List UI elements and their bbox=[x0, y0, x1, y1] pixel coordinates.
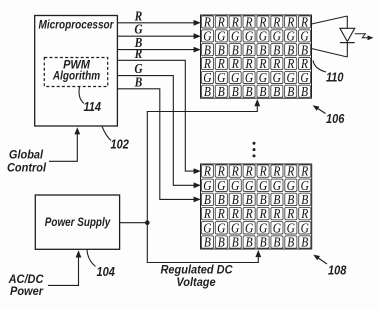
svg-text:AC/DC: AC/DC bbox=[8, 273, 44, 286]
svg-text:Regulated DC: Regulated DC bbox=[160, 264, 233, 277]
svg-text:R: R bbox=[259, 206, 267, 221]
svg-text:114: 114 bbox=[84, 99, 102, 114]
svg-text:R: R bbox=[272, 206, 280, 221]
svg-text:G: G bbox=[259, 220, 267, 235]
svg-text:R: R bbox=[203, 164, 211, 179]
power supply box 104 bbox=[35, 195, 119, 249]
leader 104 bbox=[87, 250, 96, 267]
svg-text:B: B bbox=[232, 84, 239, 99]
svg-text:B: B bbox=[204, 235, 211, 250]
leader 114 bbox=[79, 87, 84, 104]
svg-text:R: R bbox=[245, 206, 253, 221]
svg-text:G: G bbox=[245, 178, 253, 193]
svg-text:B: B bbox=[301, 192, 308, 207]
svg-text:B: B bbox=[246, 192, 253, 207]
svg-text:108: 108 bbox=[328, 263, 347, 278]
leader 106 bbox=[316, 107, 326, 114]
svg-text:R: R bbox=[245, 164, 253, 179]
svg-text:104: 104 bbox=[97, 264, 116, 279]
wire B2 bbox=[117, 89, 199, 200]
ellipsis between arrays bbox=[253, 142, 256, 145]
svg-text:B: B bbox=[245, 84, 252, 99]
wire regulated DC to bottom array bbox=[147, 223, 258, 263]
svg-text:G: G bbox=[203, 220, 211, 235]
svg-text:B: B bbox=[232, 192, 239, 207]
svg-text:R: R bbox=[203, 206, 211, 221]
svg-text:G: G bbox=[273, 220, 281, 235]
svg-text:G: G bbox=[245, 220, 253, 235]
svg-text:B: B bbox=[273, 84, 280, 99]
svg-text:B: B bbox=[218, 235, 225, 250]
wire R2 bbox=[117, 60, 199, 171]
wire B1 bbox=[117, 49, 199, 51]
svg-text:R: R bbox=[272, 164, 280, 179]
svg-text:B: B bbox=[259, 84, 266, 99]
svg-text:G: G bbox=[217, 178, 225, 193]
svg-text:G: G bbox=[301, 220, 309, 235]
svg-text:102: 102 bbox=[111, 137, 130, 152]
svg-text:Control: Control bbox=[7, 162, 47, 175]
wire AC/DC power bbox=[48, 253, 79, 286]
svg-text:B: B bbox=[218, 84, 225, 99]
svg-text:B: B bbox=[301, 235, 308, 250]
svg-text:B: B bbox=[246, 235, 253, 250]
LED diode symbol bbox=[346, 16, 348, 28]
svg-text:Power: Power bbox=[10, 285, 44, 298]
wire power supply output bbox=[120, 222, 148, 224]
light emission arrow bbox=[355, 34, 368, 38]
svg-text:G: G bbox=[231, 178, 239, 193]
leader 108 bbox=[316, 257, 327, 265]
svg-text:B: B bbox=[273, 235, 280, 250]
svg-text:B: B bbox=[232, 235, 239, 250]
svg-text:R: R bbox=[259, 164, 267, 179]
svg-text:R: R bbox=[300, 164, 308, 179]
svg-text:G: G bbox=[287, 178, 295, 193]
svg-text:G: G bbox=[203, 178, 211, 193]
svg-text:Global: Global bbox=[9, 149, 44, 162]
svg-text:R: R bbox=[231, 206, 239, 221]
leader 102 bbox=[102, 127, 111, 141]
wire G1 bbox=[117, 35, 199, 37]
svg-text:R: R bbox=[134, 46, 143, 61]
svg-text:R: R bbox=[286, 206, 294, 221]
LED array 106 (top) bbox=[201, 15, 312, 98]
junction node bbox=[145, 220, 150, 225]
wire G2 bbox=[117, 76, 199, 186]
svg-text:B: B bbox=[287, 235, 294, 250]
LED array 108 (bottom) bbox=[201, 164, 312, 249]
wire R1 bbox=[117, 22, 199, 24]
svg-text:Power Supply: Power Supply bbox=[45, 216, 111, 229]
leader 110 bbox=[313, 61, 326, 73]
svg-text:110: 110 bbox=[326, 70, 344, 85]
PWM Algorithm dashed box 114 bbox=[44, 58, 107, 87]
svg-text:B: B bbox=[204, 84, 211, 99]
svg-text:B: B bbox=[301, 84, 308, 99]
magnification cone bbox=[312, 16, 348, 24]
wire global control bbox=[49, 130, 77, 162]
svg-text:B: B bbox=[134, 74, 143, 89]
svg-text:R: R bbox=[300, 206, 308, 221]
svg-text:Microprocessor: Microprocessor bbox=[38, 19, 114, 32]
svg-text:B: B bbox=[273, 192, 280, 207]
svg-text:R: R bbox=[231, 164, 239, 179]
svg-text:R: R bbox=[286, 164, 294, 179]
svg-text:G: G bbox=[287, 220, 295, 235]
svg-text:G: G bbox=[217, 220, 225, 235]
svg-text:B: B bbox=[218, 192, 225, 207]
svg-text:106: 106 bbox=[326, 111, 345, 126]
svg-text:B: B bbox=[287, 192, 294, 207]
svg-text:Algorithm: Algorithm bbox=[52, 70, 100, 83]
svg-text:G: G bbox=[301, 178, 309, 193]
svg-text:R: R bbox=[217, 206, 225, 221]
wire regulated DC to top array bbox=[147, 101, 257, 223]
svg-text:B: B bbox=[260, 192, 267, 207]
svg-text:R: R bbox=[217, 164, 225, 179]
svg-text:B: B bbox=[287, 84, 294, 99]
svg-text:G: G bbox=[259, 178, 267, 193]
svg-text:G: G bbox=[273, 178, 281, 193]
svg-text:G: G bbox=[231, 220, 239, 235]
svg-text:Voltage: Voltage bbox=[176, 277, 216, 290]
svg-text:B: B bbox=[260, 235, 267, 250]
microprocessor box 102 bbox=[35, 16, 118, 127]
svg-text:B: B bbox=[204, 192, 211, 207]
